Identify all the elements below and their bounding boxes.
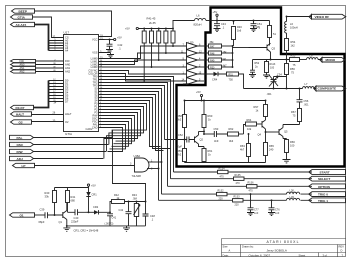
resistor R135 470: [234, 174, 245, 185]
resistor R65 240: [264, 143, 275, 163]
resistor R41b 680: [66, 188, 76, 213]
svg-text:10k: 10k: [247, 127, 252, 131]
capacitor C53 3n9: [214, 127, 228, 143]
svg-text:START: START: [320, 171, 330, 175]
wire ADJ: [34, 158, 104, 160]
resistor R48: [209, 51, 233, 55]
net VIDEO RF node: [286, 16, 288, 18]
svg-text:R46: R46: [237, 25, 242, 29]
svg-text:ATARI 800XL: ATARI 800XL: [267, 240, 299, 244]
pin number columns: [53, 39, 103, 128]
resistor R60: [202, 101, 213, 135]
svg-text:1nF: 1nF: [254, 212, 259, 215]
svg-text:L30: L30: [290, 189, 295, 193]
U17 left pin stubs: [58, 38, 64, 122]
transistor Q5: [279, 125, 288, 139]
svg-text:220pF: 220pF: [71, 220, 79, 224]
power +5V inside box: [213, 10, 219, 21]
resistor R67 75: [291, 109, 302, 125]
svg-text:.5M: .5M: [133, 196, 137, 200]
wire bundle pin91 to TRIG1 line: [105, 92, 159, 201]
resistor R64 10k: [246, 118, 263, 131]
svg-text:R132: R132: [218, 190, 225, 193]
svg-text:820uH: 820uH: [194, 22, 202, 26]
svg-text:R48: R48: [210, 52, 215, 55]
net flag TRIG 0: [309, 192, 346, 197]
svg-text:R67: R67: [291, 110, 296, 114]
node CR2 output: [109, 211, 111, 213]
wire bundle pin97: [105, 98, 171, 149]
wire buffer2 out: [198, 52, 209, 54]
wire AN2: [36, 71, 58, 73]
svg-text:TRIG 0: TRIG 0: [318, 193, 328, 197]
buffer U20A: [187, 43, 198, 50]
diode CR2: [86, 205, 111, 215]
bus wire A0-A15: [35, 25, 49, 51]
svg-text:BEEP: BEEP: [19, 10, 27, 14]
svg-text:Q5: Q5: [284, 130, 288, 134]
svg-text:3n9: 3n9: [214, 139, 219, 143]
wire buffer3 out: [198, 59, 209, 61]
inductor L7: [303, 82, 317, 89]
wire address branches: [49, 41, 58, 51]
svg-text:COMPOSITE: COMPOSITE: [318, 87, 337, 91]
svg-text:HALT: HALT: [65, 112, 72, 116]
buffer U20D: [187, 64, 198, 71]
inductor L6 820uH: [194, 13, 218, 26]
svg-text:R135: R135: [235, 174, 242, 177]
resistor R56: [285, 60, 296, 89]
wire bundle pin85 to C52 line: [105, 86, 165, 140]
wire amp ground rail: [185, 162, 266, 164]
svg-text:100: 100: [290, 144, 295, 148]
ground R66: [283, 160, 291, 163]
wire OSC: [34, 144, 109, 146]
wire LUM3 to buffer 4: [105, 66, 187, 68]
wire bundle pin88 to TRIG0 line: [105, 89, 162, 195]
capacitor C39 68pF: [39, 208, 63, 225]
svg-text:Size: Size: [223, 244, 229, 248]
svg-text:C41: C41: [112, 216, 117, 219]
wire TRIG1 line: [159, 199, 313, 201]
svg-text:REV: REV: [339, 244, 345, 248]
ground VSS: [107, 55, 114, 58]
svg-text:C40: C40: [74, 216, 79, 220]
transistor Q4: [258, 120, 266, 143]
svg-text:240: 240: [269, 148, 274, 152]
wire bundle pin115: [105, 116, 135, 142]
ground C42: [106, 50, 113, 53]
svg-text:R49: R49: [210, 59, 215, 62]
U17 pin numbers: [53, 34, 104, 122]
svg-text:U18A: U18A: [134, 154, 141, 158]
svg-text:Q1: Q1: [59, 220, 63, 224]
svg-text:O2: O2: [65, 120, 69, 124]
svg-text:D0-D7: D0-D7: [16, 106, 25, 110]
wire OSC Z-route pin106: [105, 107, 144, 145]
wire VSS to ground: [105, 53, 111, 55]
resistor R61: [202, 147, 213, 163]
svg-text:O2: O2: [19, 121, 23, 125]
wire AN1: [36, 67, 58, 69]
svg-text:AN0: AN0: [65, 63, 71, 67]
svg-text:R47: R47: [210, 45, 215, 48]
resistor R40 33k: [45, 188, 57, 216]
svg-text:Sheet: Sheet: [299, 253, 306, 257]
wire bundle pin82 to OPTION line: [105, 83, 168, 187]
resistor R42 1k: [112, 193, 146, 203]
wire rail riser to L6: [173, 21, 195, 29]
diode CR1: [86, 188, 97, 214]
svg-text:R/W: R/W: [17, 150, 23, 154]
svg-text:O1: O1: [20, 214, 24, 218]
resistor R63 4k7: [240, 133, 251, 162]
svg-text:6k2: 6k2: [177, 118, 182, 122]
resistor R66 100: [285, 140, 296, 160]
net flag O2: [11, 120, 58, 125]
svg-text:VSS: VSS: [92, 51, 97, 55]
net flag ADJ: [10, 156, 104, 161]
svg-text:+5V: +5V: [117, 36, 122, 40]
svg-text:C39: C39: [40, 208, 45, 212]
wire ADJ Z-route pin112: [104, 113, 138, 159]
wire PAL Z-route pin103: [105, 104, 147, 138]
power +5V amp rail: [196, 90, 203, 101]
wire START line: [174, 171, 313, 173]
net flag OSC: [10, 142, 109, 147]
capacitor C77 1nF: [247, 193, 259, 215]
svg-text:1nF: 1nF: [275, 212, 280, 215]
wire Q4 to Q5 base: [266, 131, 280, 133]
node composite line: [273, 88, 275, 90]
resistor R44: [164, 28, 168, 54]
svg-text:470: 470: [249, 190, 254, 193]
resistor R113: [263, 60, 276, 79]
wire ground rail bottom left: [67, 225, 146, 227]
svg-text:MONO: MONO: [326, 58, 336, 62]
wire buffer4 out: [198, 66, 209, 68]
wire +5V rail inside box: [217, 20, 270, 22]
gate U18A 74LS08: [130, 154, 153, 178]
svg-text:9k1: 9k1: [223, 58, 228, 61]
svg-text:R64: R64: [247, 118, 252, 122]
svg-text:CR2: CR2: [93, 205, 99, 209]
buffer pin numbers: [181, 44, 202, 82]
svg-text:HALT: HALT: [16, 113, 24, 117]
svg-text:R55: R55: [291, 54, 296, 58]
svg-text:AN1: AN1: [65, 66, 71, 70]
wire sum node to Q3 base: [233, 47, 249, 49]
transistor Q3: [249, 43, 276, 59]
wire BEEP to U17 pin 33: [35, 11, 112, 37]
svg-text:100uH: 100uH: [290, 26, 298, 30]
svg-text:2k #5: 2k #5: [149, 21, 156, 25]
svg-text:C48: C48: [150, 214, 155, 218]
resistor R59: [177, 140, 187, 163]
svg-text:33k: 33k: [45, 195, 50, 199]
svg-text:+5V: +5V: [196, 90, 201, 94]
resistor R49: [209, 58, 233, 62]
svg-text:C42: C42: [119, 209, 124, 212]
wire buffer1 out: [198, 45, 209, 47]
wire PAL: [34, 137, 113, 139]
wire F00: [36, 60, 58, 62]
potentiometer R43 .5M: [132, 193, 140, 226]
svg-text:CAD: CAD: [92, 126, 98, 130]
resistor R133 220: [233, 196, 244, 207]
node summing line: [232, 46, 234, 67]
svg-text:R41: R41: [71, 195, 76, 199]
svg-text:68pF: 68pF: [39, 220, 45, 224]
inductor L6b 100uH: [285, 17, 298, 39]
wire data branches: [49, 81, 58, 102]
svg-text:470: 470: [220, 175, 225, 178]
resistor R41: [142, 28, 146, 82]
resistor R136 470: [247, 182, 258, 193]
svg-text:Drawn by:: Drawn by:: [242, 244, 254, 248]
resistor R116: [253, 21, 276, 44]
wire C53 line: [204, 133, 214, 135]
svg-text:OPTION: OPTION: [318, 185, 331, 189]
wire bundle pin76 to START line: [105, 77, 174, 173]
bus flag D0-D7: [11, 81, 58, 110]
buffer U20E: [187, 71, 198, 78]
svg-text:220: 220: [235, 204, 240, 207]
wire bundle pin94: [105, 95, 164, 151]
bold highlight box (video section): [177, 8, 345, 167]
inductor L8: [307, 54, 323, 60]
svg-text:100: 100: [270, 67, 275, 70]
svg-text:C54: C54: [277, 72, 282, 76]
svg-text:1k2: 1k2: [291, 44, 296, 48]
wire Q5 emitter to R66: [283, 139, 287, 140]
svg-text:74LS08: 74LS08: [132, 174, 142, 178]
svg-text:1k6: 1k6: [237, 29, 242, 33]
svg-text:.001: .001: [267, 92, 273, 96]
capacitor C76 1nF: [268, 199, 280, 215]
svg-text:CR1, CR2 = 1N4148: CR1, CR2 = 1N4148: [74, 228, 99, 232]
net flag MONO: [320, 57, 345, 62]
svg-text:3 of: 3 of: [323, 253, 328, 257]
svg-text:LUM3: LUM3: [91, 65, 98, 69]
IC U17 GTIA: [53, 31, 105, 137]
svg-text:C53: C53: [214, 127, 219, 131]
wire O2: [32, 121, 58, 123]
svg-text:R40: R40: [45, 191, 50, 195]
net flag R/W: [10, 149, 107, 154]
node VCC/C42: [109, 39, 111, 41]
title block: [222, 239, 347, 258]
net flag START: [309, 170, 346, 175]
wire amp +5V rail: [185, 100, 266, 102]
wire LUM1 to buffer 2: [105, 53, 187, 62]
bus wire D0-D7: [34, 81, 49, 108]
wire LUM2 to buffer 3: [105, 60, 187, 65]
capacitor C42: [106, 40, 123, 53]
wire SELECT line: [171, 178, 313, 180]
svg-text:F00: F00: [65, 59, 70, 63]
inductor L30: [287, 189, 300, 194]
svg-text:October 6, 2007: October 6, 2007: [249, 253, 271, 257]
svg-text:.001: .001: [304, 103, 310, 107]
buffer U20F: [187, 78, 198, 85]
wire AN0: [36, 64, 58, 66]
svg-text:R97: R97: [254, 105, 259, 109]
svg-text:R63: R63: [240, 144, 245, 148]
wire emitter to mono line: [253, 59, 290, 61]
svg-text:D: D: [341, 249, 343, 253]
wire conditioner riser: [113, 131, 146, 202]
net flag HALT: [11, 112, 58, 117]
capacitor C40 220pF: [68, 209, 86, 223]
svg-text:C52: C52: [178, 133, 183, 137]
svg-text:Q4: Q4: [258, 133, 262, 137]
svg-text:750: 750: [229, 77, 234, 81]
wire R/W Z-route pin109: [105, 110, 141, 152]
svg-text:R133: R133: [234, 196, 241, 199]
wire VCC pin to +5V: [105, 39, 114, 41]
svg-text:A: A: [229, 249, 231, 253]
resistor R51 750: [227, 72, 244, 89]
svg-text:R134: R134: [219, 167, 226, 170]
svg-text:PAL: PAL: [17, 136, 23, 140]
wire CR2 node up to R42: [110, 202, 112, 213]
wire Q5 collector to R67: [283, 124, 300, 126]
wire gate input 1: [148, 161, 162, 163]
node mono line: [286, 59, 288, 61]
net flag F00: [11, 59, 58, 63]
capacitor C41: [107, 212, 117, 226]
svg-text:R41-45: R41-45: [147, 17, 156, 21]
bus flag A0-A15: [11, 22, 58, 50]
wire bundle pin127: [105, 128, 123, 152]
wire +5V rail bottom left: [55, 187, 89, 189]
svg-text:R56: R56: [290, 67, 295, 71]
svg-text:D7: D7: [65, 100, 69, 104]
net flag SELECT: [309, 176, 346, 181]
resistor R42: [150, 28, 154, 68]
svg-text:R65: R65: [269, 144, 274, 148]
wire buffer6 stub: [198, 80, 205, 82]
capacitor C48 .1: [143, 202, 156, 226]
svg-text:470: 470: [236, 182, 241, 185]
svg-text:Q2: Q2: [200, 138, 204, 142]
buffer U20C: [187, 57, 198, 64]
svg-text:GTIA: GTIA: [18, 16, 26, 20]
wire bundle pin121: [105, 122, 129, 147]
svg-text:R59: R59: [177, 149, 182, 153]
diode CR4: [212, 72, 227, 82]
svg-text:+5V: +5V: [213, 10, 218, 14]
wire C52 input line: [165, 139, 187, 141]
wire TRIG0 line: [162, 193, 313, 195]
svg-text:AN2: AN2: [65, 70, 71, 74]
svg-text:4050: 4050: [183, 82, 189, 86]
wire CSYNC to buffer 5: [105, 71, 187, 75]
U17 right pin stubs: [99, 37, 105, 128]
net flag LP: [13, 163, 135, 168]
svg-text:C42: C42: [118, 43, 123, 47]
wire OPTION line: [168, 185, 313, 187]
inductor L33: [287, 195, 300, 200]
ground C51: [250, 29, 257, 32]
svg-text:+5V: +5V: [125, 27, 130, 31]
power +5V bottom left: [87, 184, 96, 188]
U17 left pin names: [65, 36, 72, 125]
U17 right pin names: [88, 38, 98, 130]
wire LP to U18A: [35, 165, 135, 167]
resistor R132 220: [217, 190, 228, 201]
net flag PAL: [10, 135, 113, 140]
capacitor C51: [250, 20, 262, 32]
svg-text:R116: R116: [253, 25, 260, 29]
svg-text:Jerzy SOBOLA: Jerzy SOBOLA: [267, 248, 287, 252]
resistor R47: [209, 41, 233, 48]
capacitor C56 .001: [297, 89, 310, 109]
wire bundle pin124: [105, 125, 126, 149]
svg-text:R50: R50: [210, 66, 215, 69]
wire buffer5 out to CR4: [198, 73, 214, 75]
ground bottom rail: [123, 226, 130, 231]
capacitor C52: [176, 133, 195, 149]
svg-text:L6: L6: [197, 13, 200, 17]
svg-text:L33: L33: [290, 195, 295, 199]
svg-text:CR4: CR4: [212, 77, 218, 81]
wire L6 into box: [206, 20, 217, 22]
svg-text:2k2: 2k2: [177, 153, 182, 157]
wire bundle pin79 to SELECT line: [105, 80, 171, 179]
svg-text:AN2: AN2: [20, 71, 25, 74]
transistor Q2: [195, 132, 205, 147]
svg-text:Date:: Date:: [223, 253, 229, 257]
wire +5V rail: [138, 28, 173, 30]
power +5V at U17 VCC: [114, 36, 122, 41]
resistor R55: [290, 54, 307, 67]
wire O1 to C39: [35, 214, 46, 216]
svg-text:R58: R58: [177, 114, 182, 118]
svg-text:GTIA: GTIA: [65, 132, 72, 136]
ground C43: [214, 29, 221, 32]
svg-text:A4: A4: [65, 49, 69, 53]
transistor Q1: [59, 203, 68, 227]
svg-text:R54: R54: [291, 40, 296, 44]
resistor R54: [285, 39, 296, 60]
wire Q2 collector to C53 line: [199, 131, 205, 133]
resistor R134 470: [218, 167, 229, 178]
wire LUM0 to buffer 1: [105, 46, 187, 59]
svg-text:R60: R60: [208, 114, 213, 118]
svg-text:Q3: Q3: [272, 47, 276, 51]
trimmer capacitor C54: [267, 72, 287, 96]
svg-text:SELECT: SELECT: [318, 177, 330, 181]
node R42 output: [128, 201, 130, 203]
svg-text:VIDEO RF: VIDEO RF: [315, 15, 330, 19]
wire bundle pin118: [105, 119, 132, 144]
power +5V resistor pack rail: [125, 27, 173, 31]
resistor R46: [232, 20, 243, 46]
wire composite line: [244, 88, 303, 90]
svg-text:R62: R62: [229, 127, 234, 131]
ground Q1 emitter: [63, 226, 70, 231]
wire HALT: [32, 114, 58, 116]
wire R62 to R64: [244, 125, 246, 135]
resistor R43: [157, 28, 161, 61]
net flag OPTION: [309, 184, 346, 189]
svg-text:R66: R66: [290, 140, 295, 144]
capacitor C42b: [119, 202, 132, 226]
resistor R58: [177, 101, 187, 140]
wire COLOR to buffer 6: [105, 74, 187, 82]
